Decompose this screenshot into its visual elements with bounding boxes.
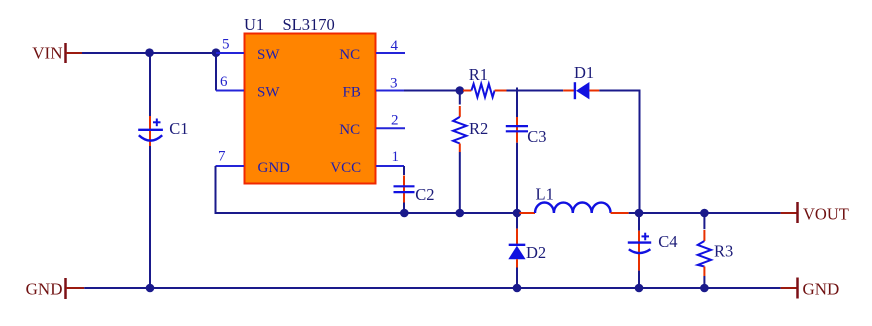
node F junction (R3 top) — [700, 209, 709, 218]
wire R1 to D1 — [507, 90, 564, 92]
svg-text:C4: C4 — [658, 232, 677, 251]
svg-text:5: 5 — [222, 37, 230, 53]
resistor R3 — [698, 213, 734, 288]
svg-text:7: 7 — [218, 149, 226, 165]
pin 5 SW — [216, 37, 244, 54]
svg-text:VIN: VIN — [32, 44, 62, 63]
diode D2 — [508, 213, 546, 288]
svg-text:R2: R2 — [469, 119, 488, 138]
svg-text:GND: GND — [803, 280, 840, 299]
wire FB to node C — [404, 90, 460, 92]
junction C2 bottom — [400, 209, 409, 218]
junction C4 bottom — [635, 284, 644, 293]
junction D2 bottom — [513, 284, 522, 293]
node D junction (C3/D2/L1) — [513, 209, 522, 218]
svg-text:SW: SW — [257, 85, 280, 101]
svg-text:GND: GND — [258, 160, 291, 176]
pin 2 NC — [376, 113, 405, 129]
capacitor C4 — [628, 213, 678, 288]
svg-text:D1: D1 — [574, 63, 594, 82]
junction R3 bottom — [700, 284, 709, 293]
svg-text:SL3170: SL3170 — [283, 15, 335, 34]
svg-text:4: 4 — [391, 38, 399, 54]
svg-text:GND: GND — [26, 280, 63, 299]
svg-text:6: 6 — [220, 74, 228, 90]
svg-text:FB: FB — [343, 85, 361, 101]
svg-text:VCC: VCC — [330, 160, 361, 176]
port GND right — [781, 278, 840, 299]
wire D1 to right corner down to node E — [599, 91, 639, 214]
diode D1 — [563, 63, 599, 100]
port VOUT — [781, 202, 849, 224]
svg-text:R1: R1 — [469, 65, 488, 84]
IC U1 SL3170 body — [244, 15, 376, 184]
pin 6 SW — [216, 74, 244, 91]
pin 1 VCC — [376, 149, 404, 166]
wire node B down to pin 6 — [215, 53, 217, 91]
svg-text:R3: R3 — [714, 242, 733, 261]
node E junction (L1/C4/D1) — [635, 209, 644, 218]
wire L1 to node E — [629, 212, 639, 214]
node B junction (pin5/pin6) — [212, 48, 221, 57]
resistor R2 — [453, 91, 488, 214]
svg-text:C1: C1 — [169, 119, 188, 138]
svg-text:U1: U1 — [244, 15, 264, 34]
pin 7 GND — [216, 149, 245, 167]
svg-text:2: 2 — [391, 113, 399, 129]
pin 4 NC — [376, 38, 405, 54]
svg-text:C2: C2 — [415, 185, 434, 204]
svg-text:VOUT: VOUT — [803, 205, 849, 224]
junction C1 bottom — [146, 284, 155, 293]
resistor R1 — [463, 65, 507, 97]
capacitor C2 — [394, 166, 435, 213]
port VIN — [32, 43, 82, 63]
junction R2 bottom — [456, 209, 465, 218]
wire VIN to node A — [82, 52, 216, 54]
svg-text:1: 1 — [392, 149, 400, 165]
wire ground rail — [84, 287, 780, 289]
svg-text:SW: SW — [257, 47, 280, 63]
inductor L1 — [520, 184, 629, 213]
wire node E to VOUT — [639, 212, 781, 214]
node A junction (C1 top) — [145, 48, 154, 57]
pin 3 FB — [376, 76, 404, 92]
capacitor C1 — [138, 53, 188, 288]
node C junction (FB/R1/R2) — [456, 86, 465, 95]
svg-text:NC: NC — [339, 122, 360, 138]
svg-text:D2: D2 — [526, 243, 546, 262]
wire pin7 to bottom node rail — [216, 166, 519, 213]
svg-text:NC: NC — [339, 47, 360, 63]
svg-text:C3: C3 — [527, 127, 546, 146]
port GND left — [26, 278, 85, 299]
svg-text:3: 3 — [390, 76, 398, 92]
svg-text:L1: L1 — [536, 184, 554, 203]
capacitor C3 — [506, 88, 547, 214]
